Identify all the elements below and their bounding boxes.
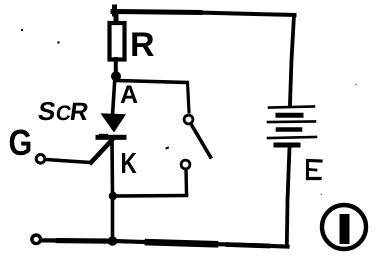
svg-text:R: R (130, 26, 155, 64)
svg-text:K: K (121, 146, 138, 179)
svg-text:G: G (9, 124, 33, 164)
svg-text:A: A (120, 81, 138, 109)
svg-text:R: R (68, 98, 90, 126)
